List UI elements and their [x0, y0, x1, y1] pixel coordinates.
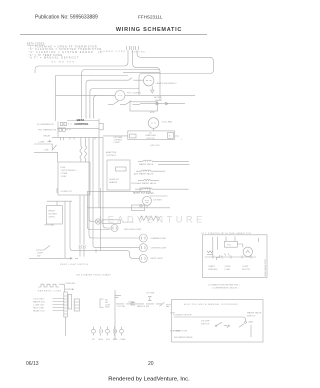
mold heater zigzag: [139, 216, 161, 221]
svg-text:Publication No: 5995633889: Publication No: 5995633889: [35, 14, 98, 20]
ice maker motor circle: [140, 196, 152, 207]
svg-text:( COMPRESSOR CIRCUIT ): ( COMPRESSOR CIRCUIT ): [212, 288, 239, 290]
mold heater drop: [89, 191, 96, 252]
svg-text:PADDLE SW: PADDLE SW: [137, 305, 149, 308]
ground arrow below lamp: [151, 86, 154, 93]
switch arrow line: [29, 257, 78, 259]
svg-text:FFHS2311L: FFHS2311L: [138, 14, 163, 19]
svg-text:SOL: SOL: [106, 339, 111, 341]
wire: mid prong bus: [133, 63, 161, 100]
svg-text:REFR LIGHT SWITCH: REFR LIGHT SWITCH: [60, 264, 88, 266]
wire: right prong loop to right: [137, 53, 214, 95]
svg-text:MID LEVEL LIGHT: MID LEVEL LIGHT: [124, 229, 142, 231]
svg-text:LAMPS ASSEMBLY: LAMPS ASSEMBLY: [156, 82, 178, 85]
left feed vertical: [56, 76, 129, 122]
svg-text:ICE & WATER CNTRL BOARD: ICE & WATER CNTRL BOARD: [76, 273, 111, 276]
svg-text:WATER VALVE: WATER VALVE: [247, 312, 262, 315]
svg-text:RELAY OUT: RELAY OUT: [33, 310, 45, 313]
svg-text:WINDING: WINDING: [208, 269, 218, 271]
svg-text:DEFROST: DEFROST: [109, 179, 120, 181]
fan motor box: [130, 102, 158, 111]
svg-text:PTC STARTER WITH RUN CAPACITOR: PTC STARTER WITH RUN CAPACITOR: [202, 232, 252, 235]
cool fan drop tick: [153, 128, 155, 131]
svg-text:OPTIONAL: OPTIONAL: [44, 224, 55, 227]
svg-text:MOTOR: MOTOR: [154, 97, 162, 99]
comp step symbol: [216, 255, 220, 260]
svg-text:RUN CAPACITOR: RUN CAPACITOR: [264, 259, 267, 277]
ice maker top feed: [87, 190, 140, 192]
chain switch: [159, 302, 169, 306]
comp inner wires left: [213, 237, 218, 257]
svg-text:RELAY: RELAY: [48, 210, 55, 213]
svg-text:FRZ FAN: FRZ FAN: [114, 136, 123, 139]
svg-text:H FUSE: H FUSE: [147, 293, 155, 295]
bus wire 3 to control: [90, 89, 139, 117]
harness waveform: [38, 284, 59, 287]
svg-text:POWER CORD: POWER CORD: [101, 51, 127, 53]
svg-text:MTR: MTR: [150, 112, 155, 114]
svg-text:AUX WATER VALVE: AUX WATER VALVE: [134, 173, 154, 176]
svg-text:CONN PL: CONN PL: [65, 289, 75, 291]
svg-text:SP: SP: [92, 339, 95, 341]
beta codes legend: [27, 42, 102, 59]
bracket group: [100, 299, 104, 308]
svg-text:HARNESS CONN: HARNESS CONN: [38, 289, 62, 292]
svg-text:COOL HSG: COOL HSG: [33, 299, 44, 301]
svg-text:L-LINE OUT: L-LINE OUT: [33, 305, 45, 307]
svg-text:ICE MKR: ICE MKR: [48, 214, 57, 216]
svg-text:LINE: LINE: [61, 167, 66, 169]
svg-text:GND: GND: [105, 307, 110, 309]
svg-text:CONTROL: CONTROL: [106, 155, 117, 157]
conn junction dot: [72, 289, 73, 290]
beta control board outline: [52, 116, 103, 137]
svg-text:FRZ THERMISTOR: FRZ THERMISTOR: [38, 130, 57, 132]
svg-text:HEATER: HEATER: [109, 181, 118, 184]
svg-text:CUBE: CUBE: [120, 339, 126, 341]
svg-text:MOTOR: MOTOR: [242, 269, 250, 271]
svg-text:LOAD: LOAD: [225, 268, 231, 271]
svg-text:FF THERMISTOR: FF THERMISTOR: [37, 124, 54, 126]
svg-text:COMP: COMP: [242, 266, 249, 268]
crisper light: [139, 244, 147, 252]
svg-text:WTR: WTR: [166, 305, 171, 307]
wire lamp feed: [56, 94, 115, 96]
wire mid bus right: [125, 94, 195, 96]
svg-text:( CONNECTIONS SHOWN FOR ): ( CONNECTIONS SHOWN FOR ): [208, 285, 240, 287]
optional feed wires: [47, 188, 72, 206]
dispenser chain: [116, 303, 162, 305]
evap fan box: [128, 131, 175, 140]
svg-text:LEADVENTURE: LEADVENTURE: [99, 214, 206, 225]
refr light switch: [36, 246, 50, 251]
board drop wires: [89, 137, 139, 238]
svg-text:CAM: CAM: [248, 321, 253, 324]
svg-text:06/13: 06/13: [26, 361, 39, 367]
svg-text:COMP: COMP: [114, 142, 121, 144]
connector labels: [33, 299, 46, 313]
svg-text:20: 20: [148, 361, 154, 367]
svg-text:TILT SW: TILT SW: [117, 306, 125, 308]
heater resistor: [116, 167, 127, 171]
defrost timer box: [58, 162, 90, 195]
evap fan wires: [103, 135, 179, 137]
svg-text:ELECTRO-MECH MANUAL DISPENSER: ELECTRO-MECH MANUAL DISPENSER: [184, 303, 238, 306]
solenoid coil crusher: [138, 179, 159, 180]
svg-text:FRZ COIL: FRZ COIL: [151, 145, 161, 147]
neutral wire: [34, 152, 58, 162]
svg-text:THK WATER VALVE: THK WATER VALVE: [174, 336, 194, 339]
svg-text:COOL FAN: COOL FAN: [162, 121, 173, 124]
svg-text:LIGHT: LIGHT: [37, 253, 44, 255]
svg-text:ADAPTIVE: ADAPTIVE: [106, 151, 117, 154]
svg-text:2 TIME: 2 TIME: [61, 173, 68, 175]
svg-text:1: 1: [181, 139, 183, 141]
coil below board 2: [85, 137, 87, 162]
ice maker feed line: [87, 205, 170, 208]
svg-text:NEUT LINE: NEUT LINE: [33, 308, 44, 310]
svg-text:FORCE PLUG: FORCE PLUG: [174, 331, 188, 333]
svg-text:ICE DISP: ICE DISP: [201, 321, 211, 323]
svg-text:AUG: AUG: [99, 338, 104, 341]
harness tail wire: [59, 284, 65, 292]
svg-text:L NE: L NE: [44, 150, 49, 152]
door switch 2: [126, 101, 140, 105]
mold heater box: [102, 220, 121, 224]
svg-text:BK WH GRN: BK WH GRN: [52, 61, 76, 63]
dispenser switch: [216, 322, 227, 328]
svg-text:CRISPER LIGHT: CRISPER LIGHT: [151, 248, 168, 250]
dispenser box: [172, 300, 263, 343]
door switch 1: [108, 101, 126, 105]
ice maker head box: [140, 188, 150, 191]
drop bends left bundle: [65, 195, 84, 258]
left drop wires: [70, 201, 127, 250]
heater component box: [107, 160, 130, 190]
wire: left prong to left bus: [35, 62, 128, 73]
svg-text:MOTOR: MOTOR: [147, 138, 155, 140]
svg-text:DRAWER LIGHT: DRAWER LIGHT: [151, 237, 168, 240]
svg-text:WATER SOL: WATER SOL: [33, 301, 46, 304]
cool fan circle: [148, 118, 159, 129]
solenoid coil auger: [135, 188, 189, 189]
svg-text:THERM: THERM: [155, 100, 163, 102]
svg-text:FRZ LAMPS: FRZ LAMPS: [127, 92, 142, 95]
title underline: [20, 34, 207, 36]
ice maker module box: [132, 205, 145, 211]
svg-text:L-LINE: L-LINE: [38, 141, 45, 143]
svg-text:B: B: [169, 136, 171, 138]
svg-text:CNTRL: CNTRL: [48, 217, 56, 219]
svg-text:WATER VALVE: WATER VALVE: [139, 163, 154, 166]
wire parallel pair: [123, 71, 160, 73]
dispenser wire: [174, 317, 246, 321]
svg-text:"d F" = MANUAL DEFROST: "d F" = MANUAL DEFROST: [29, 57, 80, 60]
bus wire 1 to control: [82, 70, 160, 117]
svg-text:1 HP W RELAY 1: 1 HP W RELAY 1: [61, 169, 78, 172]
svg-text:CONN WH: CONN WH: [65, 283, 76, 285]
connector strip 2: [68, 295, 72, 310]
svg-text:AUTO ICE MAKER: AUTO ICE MAKER: [134, 192, 155, 195]
refr light: [139, 254, 147, 262]
svg-text:Rendered by LeadVenture, Inc.: Rendered by LeadVenture, Inc.: [108, 377, 190, 383]
optional relay box: [47, 206, 63, 225]
svg-text:SWITCH: SWITCH: [201, 324, 210, 326]
svg-text:WIRING SCHEMATIC: WIRING SCHEMATIC: [116, 27, 182, 33]
auger return stub: [150, 195, 168, 197]
bus wire 2 to control: [86, 78, 144, 117]
drawer light: [139, 234, 147, 242]
svg-text:CRUSHER WATER VALVE: CRUSHER WATER VALVE: [131, 182, 157, 185]
solenoid coil aux water valve: [136, 170, 165, 171]
solenoid coil water valve: [138, 160, 189, 161]
power plug prongs: [127, 46, 139, 63]
bottom motor cluster: [92, 327, 124, 336]
lamps assembly circle: [144, 76, 154, 86]
mid level light: [111, 225, 118, 232]
compressor box: [203, 235, 268, 278]
svg-text:START: START: [208, 265, 215, 268]
svg-text:DOUBLE ICE WTR: DOUBLE ICE WTR: [174, 315, 192, 317]
svg-text:ICE MKR: ICE MKR: [153, 200, 162, 202]
mold heater small circle: [95, 219, 100, 224]
svg-text:3 DEF: 3 DEF: [61, 176, 68, 178]
line wire to switch: [34, 144, 57, 150]
wire diode row: [140, 102, 185, 105]
svg-text:REFR LIGHT: REFR LIGHT: [151, 258, 164, 260]
svg-text:CONTROL: CONTROL: [74, 122, 89, 126]
svg-text:MTR: MTR: [113, 339, 118, 341]
svg-text:PTC: PTC: [227, 244, 232, 246]
svg-text:SW: SW: [37, 255, 40, 257]
comp internal wire: [205, 244, 256, 257]
svg-text:RELAY: RELAY: [44, 134, 51, 137]
bus wire 4 to control: [94, 95, 115, 116]
svg-text:EVAP FAN: EVAP FAN: [146, 134, 156, 137]
cool lamp circle: [115, 91, 125, 101]
compressor motor circle: [243, 247, 252, 256]
relay ladder box: [74, 299, 79, 311]
ptc relay box: [225, 241, 238, 247]
svg-text:4 LINE OUT: 4 LINE OUT: [61, 191, 73, 193]
relay pins: [61, 137, 96, 140]
central vertical: [114, 290, 116, 340]
connector hooks: [79, 245, 86, 248]
coil below board 1: [80, 137, 82, 162]
lamp feed wires: [127, 251, 140, 259]
svg-text:OVER: OVER: [225, 266, 231, 268]
long vertical drops middle: [87, 188, 110, 251]
comp small component: [207, 251, 213, 255]
svg-text:GROUND: GROUND: [132, 51, 146, 53]
svg-text:SWITCH: SWITCH: [247, 316, 256, 318]
connector strip 1: [64, 292, 68, 317]
